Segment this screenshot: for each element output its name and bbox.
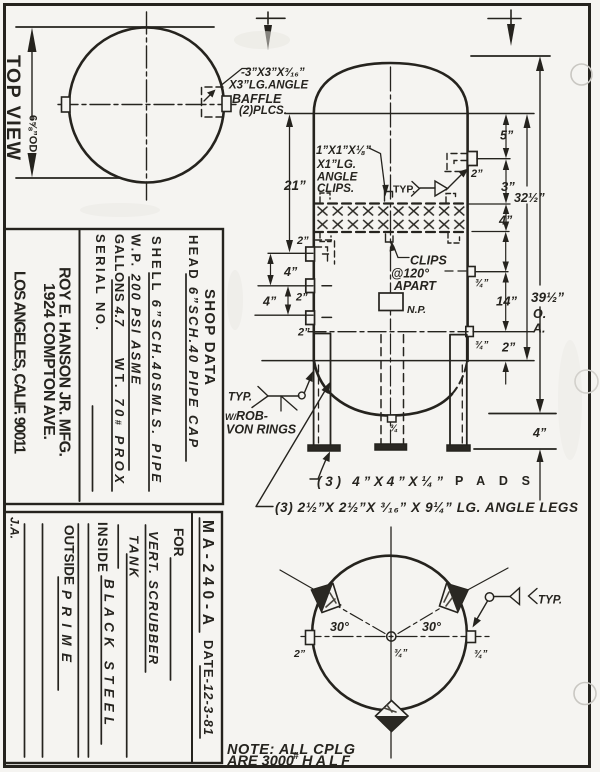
svg-text:A.: A. [532, 322, 546, 336]
svg-text:SERIAL NO.: SERIAL NO. [93, 234, 108, 330]
pads bottom extension [474, 448, 556, 450]
dashed dip pipe at coupling 1 [316, 240, 335, 264]
packing top extension [468, 203, 511, 205]
14in dim [505, 277, 507, 326]
svg-text:APART: APART [393, 279, 437, 293]
svg-text:TANK: TANK [127, 535, 142, 579]
svg-text:(2)PLCS.: (2)PLCS. [239, 105, 287, 117]
right dims: top of vessel extension [471, 55, 550, 57]
32-1/2 dim [526, 120, 528, 186]
blank rule [42, 524, 44, 757]
svg-text:2”: 2” [293, 648, 306, 660]
angle clip top-center [385, 192, 393, 202]
leg radial left solid [280, 570, 341, 605]
svg-text:¾”: ¾” [394, 648, 407, 659]
OD dimension extension line top [16, 26, 214, 28]
unlabeled dim packing to coupling [505, 236, 507, 267]
packing band top dashed line [314, 202, 468, 204]
svg-text:W.P. 200 PSI ASME: W.P. 200 PSI ASME [129, 234, 144, 384]
vessel left wall [312, 114, 315, 362]
4in dim upper left [270, 258, 272, 281]
horizontal centerline [58, 104, 236, 106]
job block box [5, 512, 223, 763]
vessel right wall [466, 114, 469, 362]
svg-text:TYP.: TYP. [228, 392, 252, 404]
bottom center fitting [388, 415, 397, 422]
OD dimension line with arrows [31, 33, 33, 172]
angle clip bottom-left [320, 233, 331, 242]
svg-text:ANGLE: ANGLE [316, 172, 358, 184]
3/4 coupling right wall [468, 267, 476, 277]
centerline dashes to 3/4 coupling [445, 270, 466, 272]
leg radial right dashed [398, 603, 449, 634]
svg-text:1”X1”X⅛”: 1”X1”X⅛” [316, 145, 371, 157]
2in coupling extension [477, 158, 510, 160]
4in dim lower left [287, 290, 289, 311]
packing bottom extension [472, 231, 509, 233]
svg-text:2”: 2” [296, 235, 309, 247]
pen arrow in baffle box [204, 92, 213, 101]
angle leg bottom [376, 701, 409, 732]
left pad [308, 445, 340, 451]
right pad [447, 445, 470, 451]
leg radial right solid [440, 568, 508, 605]
top view shell circle [69, 28, 224, 183]
punch hole bottom right [574, 683, 596, 705]
svg-text:VON RINGS: VON RINGS [226, 423, 297, 437]
CLIPS at 120 note [394, 246, 410, 258]
svg-text:2”: 2” [297, 327, 310, 339]
leader to baffle note [222, 69, 251, 86]
left extension line coupling2 [258, 285, 313, 287]
vertical centerline [390, 527, 392, 758]
svg-text:W/ROB-: W/ROB- [225, 409, 268, 423]
svg-text:ROY E. HANSON JR. MFG.: ROY E. HANSON JR. MFG. [56, 267, 73, 457]
dashed angle baffle box [202, 87, 224, 117]
left extension line coupling3 [255, 314, 313, 316]
svg-text:X3”LG.ANGLE: X3”LG.ANGLE [228, 80, 309, 92]
center hub circle [387, 632, 396, 641]
arrow from TYP to right coupling [477, 601, 488, 619]
right baffle clip [222, 96, 231, 112]
bottom couplings centerline [308, 331, 468, 333]
shop data block box [5, 229, 224, 504]
OA dim line lower [539, 307, 541, 406]
svg-text:GALLONS 4.7: GALLONS 4.7 [112, 234, 127, 327]
svg-text:2”: 2” [501, 341, 516, 355]
svg-text:-3”X3”X³⁄₁₆”: -3”X3”X³⁄₁₆” [241, 67, 305, 79]
svg-text:39½”: 39½” [531, 290, 564, 305]
legs note leader [256, 389, 326, 507]
flow arrow symbol right [510, 10, 512, 24]
head tangent line [285, 113, 534, 115]
svg-text:DATE-12-3-81: DATE-12-3-81 [201, 640, 216, 735]
leader from clips note to clip [369, 148, 385, 189]
svg-text:BAFFLE: BAFFLE [232, 92, 282, 106]
vertical centerline [146, 12, 148, 200]
bottom head arc solid [314, 361, 452, 416]
angle clip bottom-center [386, 234, 394, 242]
svg-text:30°: 30° [330, 620, 350, 634]
2in coupling right wall [468, 152, 478, 166]
svg-text:#: # [293, 751, 299, 762]
blank rule short [117, 525, 119, 568]
svg-text:OUTSIDE: OUTSIDE [62, 525, 77, 585]
svg-text:FOR: FOR [171, 528, 186, 557]
arrow from ring to leg joint [305, 378, 311, 393]
bottom view shell circle [312, 556, 467, 711]
TYP symbol bottom view [485, 593, 493, 601]
svg-text:4”: 4” [283, 265, 298, 279]
right leg [450, 335, 467, 445]
svg-text:HEAD 6”SCH.40 PIPE CAP: HEAD 6”SCH.40 PIPE CAP [186, 235, 201, 447]
svg-text:2”: 2” [295, 292, 308, 304]
svg-text:14”: 14” [496, 294, 517, 309]
center pad [375, 444, 407, 450]
ma column divider [191, 512, 193, 763]
svg-text:4”: 4” [498, 214, 513, 228]
svg-text:CLIPS.: CLIPS. [317, 183, 354, 195]
svg-text:ARE 3000: ARE 3000 [226, 754, 294, 770]
angle clip bottom-right [448, 233, 460, 243]
5in dim [505, 119, 507, 153]
svg-text:X1”LG.: X1”LG. [316, 159, 356, 171]
left extension line coupling1 [268, 252, 313, 254]
svg-text:TYP.: TYP. [538, 595, 562, 607]
3in dim [505, 164, 507, 198]
svg-text:2”: 2” [470, 168, 483, 180]
svg-text:¾”: ¾” [474, 649, 487, 660]
svg-text:(3) 4”X4”X¼”: (3) 4”X4”X¼” [317, 474, 443, 489]
bottom seam line [262, 360, 534, 362]
svg-text:SHOP DATA: SHOP DATA [201, 289, 218, 385]
left baffle clip [62, 97, 71, 112]
svg-text:LOS ANGELES, CALIF. 90011: LOS ANGELES, CALIF. 90011 [11, 271, 28, 454]
svg-text:VERT. SCRUBBER: VERT. SCRUBBER [146, 531, 161, 665]
punch hole top right [571, 64, 592, 85]
svg-text:¾”: ¾” [475, 340, 488, 351]
svg-text:TOP VIEW: TOP VIEW [2, 55, 24, 161]
left wall coupling 2 [306, 279, 315, 293]
svg-text:BLACK STEEL: BLACK STEEL [102, 579, 117, 725]
bottom head low point extension [489, 413, 556, 415]
svg-text:5”: 5” [500, 129, 514, 143]
angle clip top-right [446, 194, 456, 203]
svg-text:SHELL 6”SCH.40SMLS. PIPE: SHELL 6”SCH.40SMLS. PIPE [149, 236, 164, 482]
punch hole mid right [575, 370, 598, 393]
svg-text:INSIDE: INSIDE [95, 522, 110, 572]
dashed internal elbow at 2in coupling [445, 154, 467, 172]
svg-text:6⅝”OD: 6⅝”OD [27, 115, 39, 152]
bottom coupling right wall [466, 327, 474, 337]
svg-text:4”: 4” [532, 426, 547, 440]
vessel dome head [314, 63, 468, 114]
packing crosshatch [315, 205, 467, 232]
21in dimension line [289, 122, 291, 243]
svg-text:O.: O. [533, 307, 546, 321]
3/4 coupling extension [476, 271, 508, 273]
OD dimension extension line bottom [16, 177, 120, 179]
horizontal centerline [301, 636, 490, 638]
svg-text:TYP.: TYP. [393, 184, 415, 196]
4in dim packing [505, 209, 507, 226]
svg-text:N.P.: N.P. [407, 304, 426, 316]
svg-text:21”: 21” [283, 178, 306, 193]
blank rule [24, 524, 26, 757]
4in dim bottom [539, 453, 541, 500]
left wall coupling 1 [306, 247, 315, 261]
svg-text:¾: ¾ [390, 423, 398, 434]
address divider [79, 229, 81, 501]
packing band bottom dashed line [314, 231, 468, 233]
svg-text:(3) 2½”X 2½”X ³⁄₁₆” X 9¼” LG.: (3) 2½”X 2½”X ³⁄₁₆” X 9¼” LG. ANGLE LEGS [275, 500, 578, 515]
left wall coupling 3 [306, 311, 315, 325]
svg-text:¾”: ¾” [475, 278, 488, 289]
left coupling [306, 631, 315, 645]
OA dim line upper [539, 64, 541, 285]
blank rule [87, 524, 89, 757]
blank rule [77, 524, 79, 757]
svg-text:J.A.: J.A. [8, 517, 22, 539]
leg radial left dashed [332, 603, 385, 634]
svg-text:30°: 30° [422, 620, 442, 634]
vessel vertical centerline [390, 67, 392, 330]
svg-text:32½”: 32½” [514, 191, 545, 205]
flow arrow symbol above top view [267, 12, 269, 24]
bottom head arc hidden dashed [452, 361, 467, 394]
center back leg hidden [381, 335, 404, 444]
svg-text:1924 COMPTON AVE.: 1924 COMPTON AVE. [40, 283, 57, 440]
angle leg top-right [440, 584, 469, 613]
right coupling [467, 631, 476, 643]
nameplate square [379, 293, 403, 311]
svg-text:CLIPS: CLIPS [410, 254, 447, 268]
center leg centerline [390, 334, 392, 443]
svg-text:4”: 4” [262, 295, 277, 309]
left leg [314, 334, 331, 446]
angle leg top-left [312, 584, 341, 613]
leader arrow to 2in coupling [446, 172, 464, 190]
pads note leader [310, 457, 327, 479]
angle clip top-left [320, 193, 330, 202]
rob-von ring circle [298, 392, 305, 399]
